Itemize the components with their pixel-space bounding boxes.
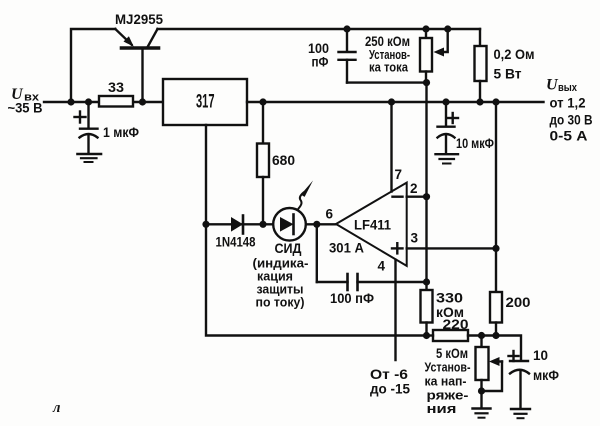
node pin3 bbox=[492, 245, 499, 252]
wire pin3 bbox=[407, 247, 496, 249]
node base junction bbox=[139, 98, 146, 105]
svg-text:7: 7 bbox=[395, 167, 403, 182]
svg-text:л: л bbox=[52, 400, 60, 416]
svg-text:1 мкФ: 1 мкФ bbox=[103, 125, 139, 140]
node cap100pF right bbox=[423, 278, 430, 285]
wire 330k bottom bbox=[425, 323, 427, 336]
wire pin7 to rail bbox=[390, 102, 392, 192]
resistor R2 680 bbox=[257, 102, 269, 224]
svg-text:5 Вт: 5 Вт bbox=[494, 67, 522, 82]
svg-text:4: 4 bbox=[378, 259, 386, 274]
node 330k bottom bbox=[423, 332, 430, 339]
label 250 kOm block bbox=[365, 34, 410, 75]
node pot250 bottom bbox=[423, 79, 430, 86]
svg-text:мкФ: мкФ bbox=[533, 368, 559, 383]
svg-text:317: 317 bbox=[196, 92, 215, 113]
op-amp U2 LF411 bbox=[336, 183, 407, 266]
wire feedback left leg bbox=[206, 224, 427, 335]
potentiometer R7 250k bbox=[420, 29, 448, 83]
node pin2 bbox=[423, 193, 430, 200]
node 680 bottom bbox=[259, 221, 266, 228]
ground gnd2 pot bbox=[473, 409, 491, 418]
svg-text:680: 680 bbox=[272, 152, 295, 168]
wire pin2 bbox=[407, 195, 427, 197]
wire top rail bbox=[158, 28, 481, 30]
svg-text:~35 В: ~35 В bbox=[8, 101, 43, 116]
svg-text:Установ-: Установ- bbox=[425, 360, 471, 375]
svg-text:ка тока: ка тока bbox=[369, 60, 409, 75]
resistor R3 330k bbox=[421, 290, 433, 323]
svg-text:6: 6 bbox=[326, 207, 334, 222]
svg-text:по току): по току) bbox=[256, 295, 305, 310]
node pot250 wiper top bbox=[444, 25, 451, 32]
potentiometer R6 5k bbox=[476, 336, 503, 409]
svg-text:301 А: 301 А bbox=[329, 241, 364, 256]
capacitor C1 1uF bbox=[75, 102, 98, 154]
label 100 pF top bbox=[308, 41, 329, 70]
wire output rail bbox=[247, 101, 544, 103]
minus sign bbox=[393, 195, 403, 197]
LED D2 SID bbox=[273, 181, 313, 241]
svg-text:10 мкФ: 10 мкФ bbox=[456, 136, 494, 151]
resistor R5 200 bbox=[490, 248, 502, 335]
svg-text:пФ: пФ bbox=[312, 55, 329, 70]
wire diode row bbox=[206, 223, 336, 225]
svg-text:СИД: СИД bbox=[275, 241, 302, 256]
svg-text:ния: ния bbox=[427, 401, 457, 416]
label SID block bbox=[253, 241, 309, 310]
svg-text:0,2 Ом: 0,2 Ом bbox=[494, 47, 535, 62]
label Ustanovka napryazheniya bbox=[425, 360, 471, 417]
svg-text:От -6: От -6 bbox=[370, 367, 409, 382]
svg-text:ка нап-: ка нап- bbox=[425, 374, 467, 389]
wire pin2 down to 330k bbox=[425, 197, 427, 290]
svg-text:0-5 А: 0-5 А bbox=[550, 129, 588, 144]
svg-text:10: 10 bbox=[533, 348, 548, 363]
node cap100 top bbox=[343, 25, 350, 32]
svg-text:MJ2955: MJ2955 bbox=[115, 12, 163, 27]
node pin6 bbox=[313, 221, 320, 228]
capacitor C2 100pF top bbox=[339, 29, 427, 83]
svg-text:вых: вых bbox=[558, 82, 578, 94]
capacitor C4 100pF feedback bbox=[317, 224, 427, 290]
node pot5k top bbox=[478, 332, 485, 339]
regulator U1 317 bbox=[163, 79, 247, 125]
svg-text:100 пФ: 100 пФ bbox=[330, 291, 374, 306]
svg-text:2: 2 bbox=[410, 181, 418, 196]
wire pin2 vertical through rail bbox=[425, 83, 427, 197]
wire bottom row right bbox=[427, 334, 434, 336]
capacitor C3 10uF rail bbox=[438, 102, 459, 154]
node cap10 top bbox=[442, 98, 449, 105]
svg-text:от 1,2: от 1,2 bbox=[550, 96, 586, 111]
svg-text:330: 330 bbox=[436, 291, 463, 306]
ground gnd3 cap bbox=[511, 409, 530, 418]
capacitor C5 10uF bottom bbox=[509, 351, 530, 409]
node cap1 junction bbox=[85, 98, 92, 105]
resistor R1 33 bbox=[99, 96, 133, 107]
node pin7 rail bbox=[388, 98, 395, 105]
svg-text:33: 33 bbox=[108, 80, 125, 95]
node pot250 top bbox=[422, 25, 429, 32]
wire ADJ pin down bbox=[205, 125, 207, 224]
diode D1 1N4148 bbox=[231, 216, 243, 234]
svg-text:200: 200 bbox=[506, 295, 531, 310]
label 330 kOm bbox=[436, 291, 464, 321]
label 10 mkF bottom bbox=[533, 348, 559, 383]
svg-text:до -15: до -15 bbox=[370, 382, 410, 397]
svg-text:3: 3 bbox=[411, 231, 419, 246]
ground gnd1 bbox=[78, 154, 102, 162]
node input-left bbox=[67, 98, 74, 105]
node r02 bottom bbox=[476, 98, 483, 105]
plus sign bbox=[392, 243, 403, 253]
node 680 top bbox=[259, 98, 266, 105]
resistor R4 220 bbox=[433, 330, 468, 341]
resistor R8 0.2 Om bbox=[475, 29, 487, 102]
label U out bbox=[546, 77, 593, 144]
svg-text:LF411: LF411 bbox=[354, 217, 391, 233]
label 0.2 Om 5 Vt bbox=[494, 47, 535, 82]
wire left riser to emitter bbox=[71, 29, 115, 102]
label U in bbox=[8, 86, 43, 116]
ground gnd4 bbox=[436, 154, 459, 163]
wire rail to pin3 riser bbox=[495, 102, 497, 248]
svg-text:до 30 В: до 30 В bbox=[550, 112, 593, 127]
wire input rail bbox=[44, 101, 163, 103]
transistor Q1 MJ2955 bbox=[115, 29, 158, 102]
svg-text:1N4148: 1N4148 bbox=[216, 235, 256, 250]
node output riser bbox=[492, 98, 499, 105]
node adj-diode bbox=[202, 221, 209, 228]
node 200 bottom bbox=[492, 332, 499, 339]
label Ot -6 do -15 bbox=[370, 367, 410, 397]
wire pin4 negative supply bbox=[394, 260, 396, 360]
svg-text:220: 220 bbox=[443, 317, 469, 332]
